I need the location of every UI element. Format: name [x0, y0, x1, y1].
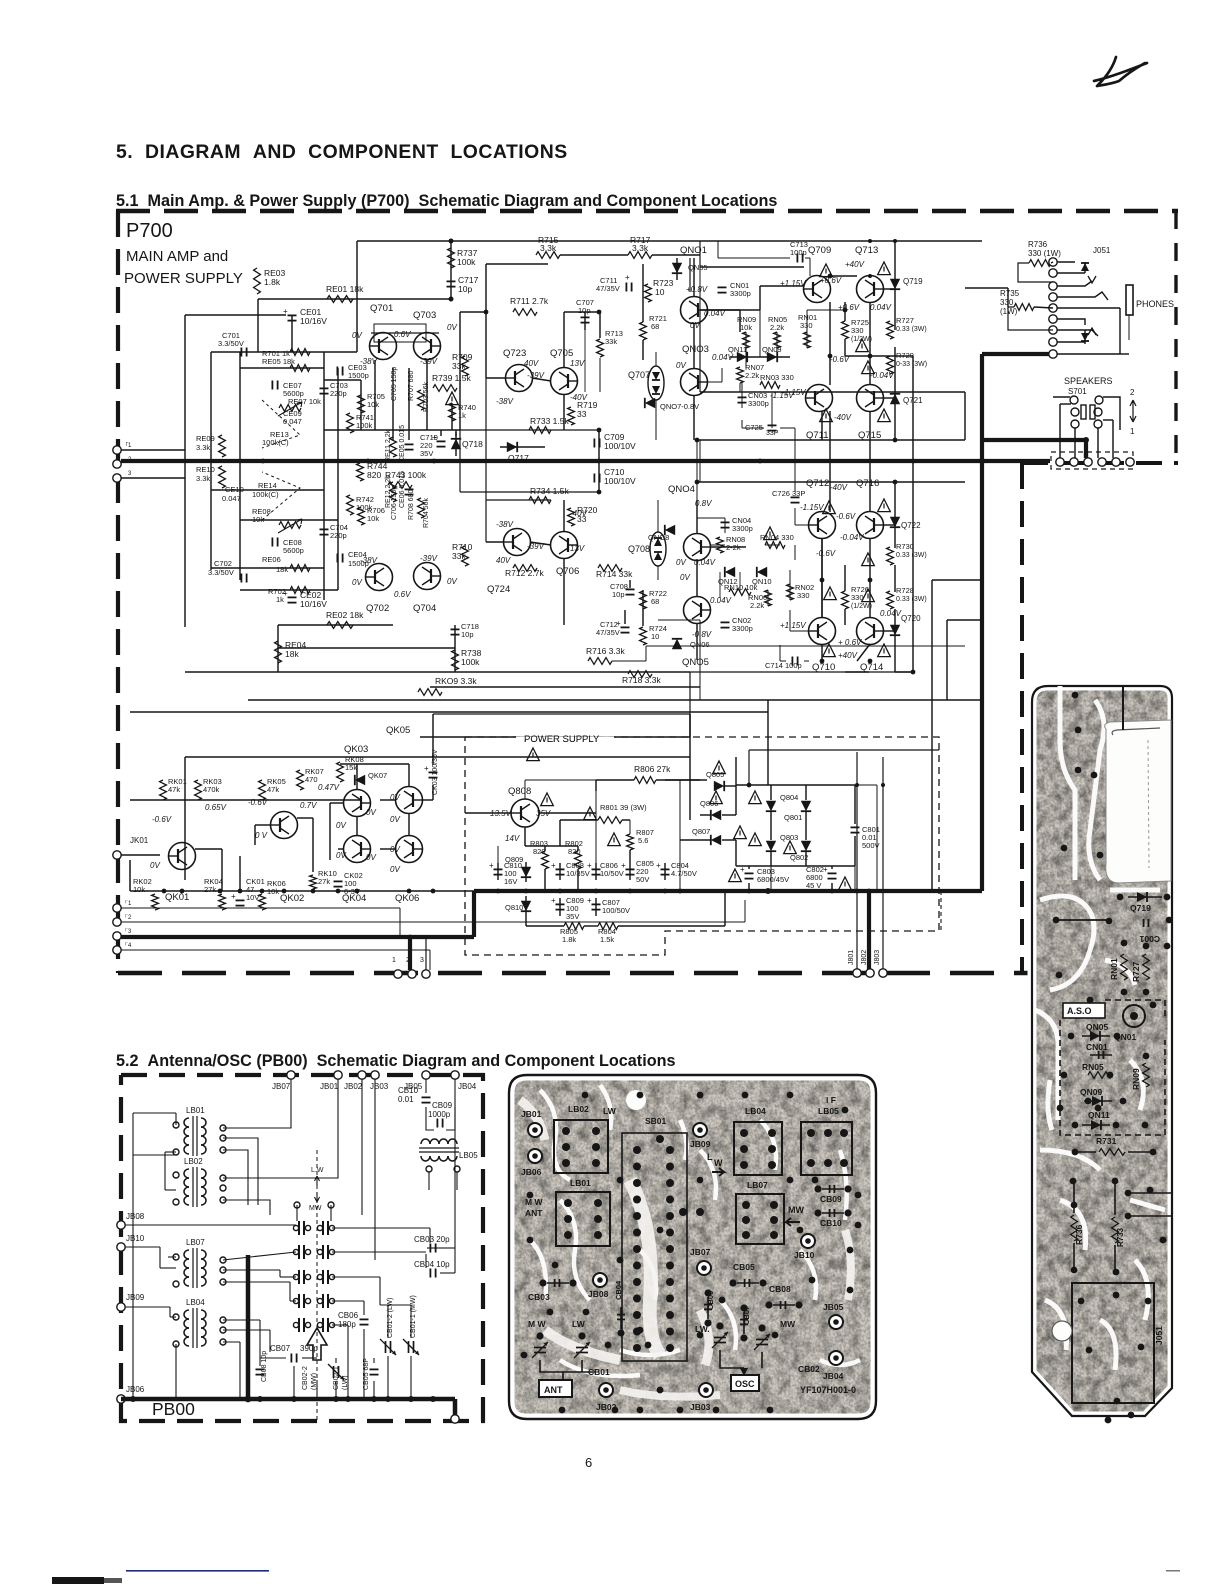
svg-text:+: +: [587, 861, 592, 870]
wire rail y430 long: [460, 429, 599, 431]
voltage 14V: [505, 834, 520, 843]
diode Q803: [766, 833, 799, 851]
phones connector A mark: [1088, 328, 1096, 335]
voltage -40V q706: [570, 509, 588, 518]
warning tri r729: [862, 361, 875, 374]
speaker arrows: [1130, 388, 1136, 436]
diode QN05 top: [672, 258, 708, 280]
wire bridge rails: [665, 757, 855, 891]
bottom connector 1: [392, 957, 402, 978]
warning triangle R740: [446, 392, 459, 405]
svg-text:R739 1.5k: R739 1.5k: [432, 373, 471, 383]
label CB02: [798, 1364, 820, 1374]
svg-text:13V: 13V: [570, 544, 585, 553]
resistor R725: [842, 318, 872, 343]
capacitor C804: [656, 861, 697, 878]
svg-text:L.W: L.W: [311, 1167, 324, 1174]
warning tri q805: [713, 761, 726, 774]
trimmer LW right: [695, 1322, 728, 1348]
capacitor CB08 symbol: [256, 1369, 265, 1374]
wire trimmers to ant: [540, 1360, 595, 1389]
svg-text:0.33 (3W): 0.33 (3W): [896, 326, 927, 333]
wire cb09 loop: [426, 1079, 455, 1160]
right PCB inner white region: [1105, 720, 1171, 883]
resistor R712: [505, 565, 544, 578]
voltage -39V q723: [527, 371, 545, 380]
bottom PCB white patches: [520, 1100, 851, 1397]
capacitor CB08 on PCB: [765, 1284, 802, 1309]
capacitor CK03 symbol: [424, 764, 438, 778]
svg-text:100/10V: 100/10V: [604, 441, 636, 451]
component Q708 dual diode: [628, 532, 666, 566]
svg-text:0V: 0V: [676, 361, 686, 370]
resistor R729: [887, 351, 928, 374]
voltage 0.47V: [318, 783, 340, 792]
svg-text:M W: M W: [528, 1319, 546, 1329]
svg-text:Q702: Q702: [366, 603, 389, 614]
svg-text:CB09: CB09: [820, 1194, 842, 1204]
svg-text:RKO9 3.3k: RKO9 3.3k: [435, 676, 477, 686]
diode Q809: [505, 855, 531, 877]
resistor RN05 on PCB: [1082, 1062, 1112, 1078]
svg-text:3.3/50V: 3.3/50V: [218, 339, 244, 348]
capacitor C707: [576, 298, 594, 323]
capacitor C001 on PCB: [1139, 919, 1160, 944]
svg-text:470k: 470k: [203, 785, 220, 794]
box LB01: [525, 1178, 610, 1246]
svg-text:1: 1: [1130, 427, 1135, 436]
svg-text:RE09: RE09: [196, 434, 215, 443]
capacitor CB09: [428, 1101, 453, 1128]
svg-text:CB05: CB05: [733, 1262, 755, 1272]
svg-text:68: 68: [651, 597, 659, 606]
svg-text:33k: 33k: [452, 551, 466, 561]
wire mesh y490: [211, 489, 324, 491]
voltage 35V: [536, 809, 551, 818]
svg-text:0V: 0V: [690, 321, 700, 330]
svg-text:+: +: [283, 589, 288, 598]
resistor RN04: [760, 533, 794, 548]
switch S3: [293, 1270, 334, 1284]
voltage -39V q724: [527, 542, 545, 551]
svg-text:33k: 33k: [605, 337, 617, 346]
wire t12: [121, 900, 745, 922]
phone jack wires: [1057, 262, 1120, 354]
svg-text:330 (1W): 330 (1W): [1028, 249, 1061, 258]
right PCB board outline: [1032, 686, 1172, 1416]
wire vert x292: [291, 315, 293, 352]
resistor RE12 symbol: [390, 482, 397, 502]
svg-text:Q716: Q716: [856, 478, 879, 489]
capacitor C802: [806, 865, 837, 890]
label Q714: [860, 662, 883, 673]
trimmer CB02-1 symbol: [328, 1364, 344, 1380]
svg-text:RE02 18k: RE02 18k: [326, 610, 364, 620]
svg-text:18k: 18k: [285, 649, 299, 659]
resistor RN07: [737, 363, 765, 383]
svg-text:820: 820: [533, 847, 546, 856]
svg-text:QK06: QK06: [395, 893, 419, 904]
wire rail y299: [258, 298, 451, 300]
terminal JB05 top: [404, 1071, 430, 1091]
svg-text:CB03: CB03: [528, 1292, 550, 1302]
svg-text:JB09: JB09: [126, 1293, 145, 1302]
wire vert x240: [239, 352, 241, 580]
svg-text:+0.6V: +0.6V: [838, 303, 860, 312]
wire q723-q705: [532, 378, 551, 381]
wire rail y312: [460, 311, 486, 313]
rotated label CB02-2: [302, 1366, 318, 1390]
resistor R735: [1000, 289, 1034, 316]
speaker jack L: [1070, 396, 1086, 428]
svg-text:CB08 10p: CB08 10p: [261, 1351, 268, 1382]
diode phone2: [1081, 330, 1089, 344]
svg-text:QN11: QN11: [1088, 1110, 1110, 1120]
wire vert x338: [337, 368, 339, 590]
svg-text:PHONES: PHONES: [1136, 299, 1174, 309]
svg-text:W: W: [714, 1158, 723, 1168]
svg-text:10k: 10k: [367, 400, 379, 409]
transistor Q723: [503, 348, 533, 392]
capacitor CB07: [270, 1344, 318, 1363]
ring JB01: [521, 1109, 542, 1137]
speaker jack R: [1090, 396, 1103, 428]
svg-text:LW.: LW.: [695, 1324, 710, 1334]
svg-text:-38V: -38V: [496, 397, 514, 406]
capacitor CE04: [337, 550, 368, 568]
svg-text:0V: 0V: [336, 851, 346, 860]
capacitor C717: [447, 275, 479, 294]
svg-text:47/35V: 47/35V: [596, 628, 620, 637]
svg-text:-38V: -38V: [360, 556, 378, 565]
rotated label R703: [423, 382, 430, 412]
label ASO box: [1063, 1003, 1105, 1018]
right PCB top trace mark: [1122, 686, 1124, 730]
0.6V annotation box: [374, 324, 426, 342]
transistor Q701: [370, 303, 397, 360]
wire rail y315: [185, 314, 286, 316]
resistor R728: [887, 586, 927, 609]
svg-text:10/16V: 10/16V: [300, 599, 327, 609]
bottom PCB white hole: [626, 1090, 646, 1110]
svg-text:LW: LW: [603, 1106, 617, 1116]
box LB07: [736, 1180, 784, 1244]
svg-text:CE05 0.015: CE05 0.015: [399, 425, 406, 462]
resistor R726: [842, 585, 872, 610]
svg-text:3: 3: [420, 957, 424, 964]
thick vertical bus right: [980, 354, 984, 891]
svg-text:0V: 0V: [366, 853, 376, 862]
label Q713: [855, 245, 878, 256]
svg-text:MW: MW: [309, 1205, 322, 1212]
warning tri r807: [608, 833, 621, 846]
wire j801: [747, 750, 939, 969]
wire qn row y312: [707, 310, 740, 332]
bus junction dots: [261, 458, 985, 464]
label YF107H001-0: [800, 1385, 856, 1395]
voltage -38V q723: [496, 397, 514, 406]
main output bus (thick): [121, 459, 1050, 463]
svg-text:3.3k: 3.3k: [632, 243, 649, 253]
warning tri c802: [839, 877, 852, 890]
label Q715: [858, 430, 881, 441]
svg-text:+: +: [489, 861, 494, 870]
rotated label CE05: [399, 425, 406, 462]
resistor R733 on PCB: [1112, 1184, 1125, 1269]
wire r736 loop: [1018, 262, 1053, 282]
rotated label CE06: [399, 471, 406, 508]
voltage -1.15V q712: [800, 503, 824, 512]
transistor Q709 symbol: [804, 276, 831, 303]
power bus horizontal (thick): [474, 889, 982, 893]
resistor RE14: [252, 481, 279, 499]
svg-text:1.8k: 1.8k: [264, 277, 281, 287]
svg-text:3.3/50V: 3.3/50V: [208, 568, 234, 577]
resistor RK02: [133, 877, 158, 910]
wire vert x451 R737: [449, 239, 454, 302]
resistor R727: [887, 316, 927, 339]
voltage -0.6V mid2: [816, 549, 836, 558]
label Q711: [806, 430, 829, 441]
svg-text:CB07: CB07: [270, 1344, 291, 1353]
label SPEAKERS: [1064, 376, 1113, 386]
svg-text:R733: R733: [1116, 1227, 1125, 1247]
capacitor C725: [745, 423, 779, 437]
box LB04: [734, 1106, 782, 1175]
resistor R736 on PCB: [1071, 1184, 1084, 1267]
wire input trunk vertical: [184, 315, 186, 627]
label PB00: [152, 1399, 195, 1419]
svg-text:SPEAKERS: SPEAKERS: [1064, 376, 1113, 386]
svg-text:QNO4: QNO4: [668, 484, 695, 495]
label Q712: [806, 478, 829, 489]
svg-text:J051: J051: [1093, 246, 1111, 255]
svg-text:2.2k: 2.2k: [750, 601, 764, 610]
voltage -40V q711: [834, 413, 852, 422]
warning tri q714: [878, 644, 891, 657]
transistor Q711 symbol: [806, 385, 833, 412]
svg-text:+: +: [424, 764, 429, 773]
svg-text:Q708: Q708: [628, 544, 650, 554]
capacitor CE07: [272, 381, 303, 399]
capacitor CK01: [231, 877, 265, 906]
junction dots mid: [449, 239, 916, 495]
svg-text:QNO1: QNO1: [680, 245, 707, 256]
PB00 bottom terminal: [451, 1415, 459, 1423]
wire out stage: [822, 276, 870, 661]
thick drop to connector 2: [408, 937, 412, 970]
svg-text:330: 330: [797, 591, 810, 600]
label PHONES: [1136, 299, 1174, 309]
svg-text:27k: 27k: [318, 877, 330, 886]
voltage 0.7V: [300, 801, 317, 810]
svg-text:0V: 0V: [390, 865, 400, 874]
diode QN09 on PCB: [1080, 1087, 1112, 1106]
P700 board border right-mid dashed: [1022, 461, 1178, 465]
wire conn3: [425, 937, 427, 970]
wire lower rail y712: [130, 711, 768, 713]
right PCB copper speckle coarse: [1032, 686, 1172, 1416]
svg-text:JB06: JB06: [126, 1385, 145, 1394]
wire q712 base: [765, 508, 822, 560]
svg-text:6800/45V: 6800/45V: [757, 875, 789, 884]
svg-text:J051: J051: [1154, 1326, 1164, 1345]
resistor RE10: [196, 465, 225, 488]
switch S5: [293, 1318, 334, 1332]
svg-text:2.2k: 2.2k: [745, 371, 759, 380]
svg-text:0.33 (3W): 0.33 (3W): [896, 596, 927, 603]
svg-text:R712 2.7k: R712 2.7k: [505, 568, 544, 578]
PB00 wires right region: [260, 1160, 455, 1399]
svg-text:Q724: Q724: [487, 584, 510, 595]
resistor RK03: [195, 777, 222, 800]
wire q709 bias: [740, 302, 845, 392]
svg-text:R731: R731: [1096, 1136, 1117, 1146]
wire c714: [780, 645, 809, 661]
transistor Q705: [550, 348, 578, 395]
wire input t1: [121, 449, 185, 451]
svg-text:POWER SUPPLY: POWER SUPPLY: [524, 734, 600, 745]
resistor RK08: [337, 755, 364, 782]
voltage 0.6V q702: [394, 590, 411, 599]
wire out rails: [700, 267, 895, 631]
svg-text:3300p: 3300p: [732, 524, 753, 533]
wire lower rail y672: [185, 671, 690, 673]
svg-text:QN05: QN05: [1086, 1022, 1108, 1032]
svg-text:LW: LW: [572, 1319, 586, 1329]
diode Q807: [692, 827, 721, 845]
transistor QN01 on PCB: [1114, 1005, 1145, 1042]
svg-text:┌: ┌: [124, 940, 128, 946]
warning tri ps: [527, 748, 540, 761]
wire rail y368: [240, 367, 324, 369]
svg-text:MW: MW: [788, 1205, 804, 1215]
PB00 border dashed: [121, 1075, 483, 1421]
wire r735 loop: [1008, 307, 1053, 330]
box LB05 IF: [801, 1095, 852, 1175]
resistor R804: [598, 923, 618, 944]
capacitor CB03: [414, 1235, 450, 1253]
svg-text:-0.6V: -0.6V: [816, 549, 836, 558]
wire y267 rail: [699, 267, 701, 310]
bottom blue rule: [126, 1570, 269, 1572]
svg-text:J802: J802: [861, 950, 868, 965]
svg-text:C714 100p: C714 100p: [765, 661, 802, 670]
wire left col x660: [656, 352, 694, 580]
resistor RN01: [798, 313, 817, 348]
svg-text:CB06: CB06: [706, 1291, 715, 1310]
resistor R713: [597, 329, 623, 357]
svg-text:Q810: Q810: [505, 903, 523, 912]
wire lower mesh y648: [278, 647, 455, 649]
svg-text:+: +: [283, 307, 288, 316]
svg-text:Q804: Q804: [780, 793, 798, 802]
wire lower mesh y625: [278, 624, 393, 626]
svg-text:100/10V: 100/10V: [604, 476, 636, 486]
wire rail y255: [560, 254, 700, 256]
voltage -0.8V: [692, 630, 712, 639]
transistor Q703: [413, 310, 441, 360]
wire qn11 row: [730, 356, 790, 358]
wire ps mesh: [498, 820, 725, 926]
resistor R741: [347, 413, 374, 433]
speaker connector pins: [1056, 458, 1134, 466]
svg-text:0.01: 0.01: [398, 1095, 414, 1104]
resistor RK07: [297, 767, 324, 790]
wire vert x357 upper: [356, 241, 358, 352]
svg-text:Q710: Q710: [812, 662, 835, 673]
bottom PCB scattered pads: [521, 1092, 862, 1414]
transistor Q710 symbol: [809, 618, 836, 645]
label LW arrow: [707, 1152, 724, 1176]
diode QN11 on PCB: [1082, 1110, 1110, 1130]
terminal JB10 left: [117, 1234, 145, 1251]
wire t11: [121, 908, 400, 937]
svg-text:+: +: [625, 273, 630, 282]
voltage -0.04V q716: [840, 533, 864, 542]
terminal J801: [848, 950, 861, 977]
terminal JB01 top: [320, 1071, 342, 1091]
right PCB mounting hole: [1052, 1321, 1072, 1341]
capacitor C809: [551, 896, 584, 921]
voltage -1.15V q711: [782, 388, 806, 397]
svg-text:10k: 10k: [740, 323, 752, 332]
svg-text:RN01: RN01: [1109, 958, 1119, 980]
voltage 0.04V qn03: [712, 353, 734, 362]
wire mesh y520: [240, 519, 338, 521]
wire bias chain: [696, 440, 698, 500]
capacitor C703: [320, 381, 348, 398]
svg-text:C726 33P: C726 33P: [772, 489, 805, 498]
voltage 0.04V qn01: [704, 309, 726, 318]
resistor RE08: [252, 507, 302, 533]
terminal T3 left: [113, 471, 132, 482]
PB00 bus dots: [130, 1396, 436, 1403]
section 5.2 heading: [116, 1052, 675, 1070]
svg-text:1.5k: 1.5k: [600, 935, 614, 944]
warning tri q711: [820, 409, 833, 422]
resistor R802: [565, 839, 583, 869]
svg-text:10: 10: [651, 632, 659, 641]
svg-text:2: 2: [1130, 388, 1135, 397]
capacitor CE03: [337, 363, 368, 380]
resistor R733: [529, 416, 569, 433]
warning tri q713: [878, 262, 891, 275]
resistor RK06: [259, 879, 286, 910]
svg-text:MAIN AMP and: MAIN AMP and: [126, 248, 228, 265]
warning tri q802: [784, 841, 797, 854]
wire qn03 region: [707, 368, 795, 492]
svg-text:Q713: Q713: [855, 245, 878, 256]
capacitor C719: [420, 433, 446, 458]
voltage -0.6V q711: [830, 355, 850, 364]
svg-text:CB10: CB10: [820, 1218, 842, 1228]
wire q706 up: [563, 500, 565, 532]
terminal JB04 top: [451, 1071, 477, 1091]
warning tri q716: [878, 499, 891, 512]
capacitor CN02: [721, 616, 753, 633]
right PCB margin: [1032, 686, 1172, 1416]
svg-text:18k: 18k: [276, 565, 288, 574]
svg-text:CB07: CB07: [742, 1306, 751, 1325]
svg-text:RE14: RE14: [258, 481, 277, 490]
svg-text:+: +: [231, 892, 236, 901]
voltage +0.6V q709: [820, 276, 842, 285]
bottom PCB texture base: [509, 1075, 876, 1419]
svg-text:-0.8V: -0.8V: [692, 630, 712, 639]
svg-text:RE06: RE06: [262, 555, 281, 564]
terminal JB09 left: [117, 1293, 145, 1311]
